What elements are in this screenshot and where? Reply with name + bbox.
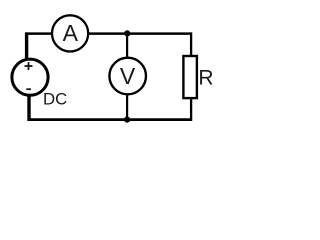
svg-text:V: V	[120, 63, 136, 89]
svg-text:A: A	[63, 20, 79, 46]
svg-text:DC: DC	[43, 90, 67, 109]
svg-text:R: R	[198, 66, 213, 89]
